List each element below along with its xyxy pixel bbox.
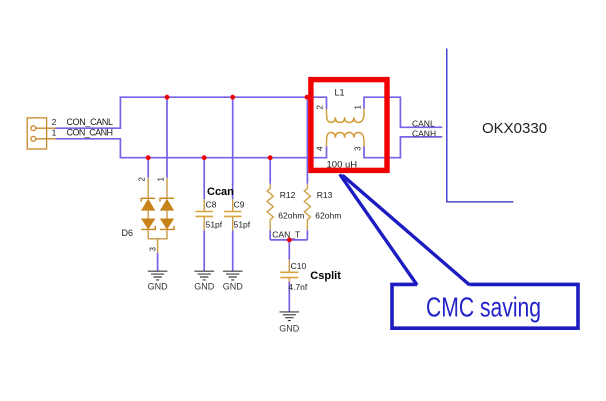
svg-text:CMC saving: CMC saving — [426, 292, 541, 323]
wire D6 pin3 to GND — [157, 253, 159, 271]
svg-text:3: 3 — [354, 146, 363, 151]
D6 lead pin1 — [166, 178, 168, 199]
wire R13 branch — [306, 97, 308, 240]
wire C8 branch — [203, 158, 205, 272]
D6 right top diode triangle — [160, 199, 173, 210]
svg-text:OKX0330: OKX0330 — [482, 120, 547, 137]
svg-text:R13: R13 — [317, 190, 333, 200]
svg-text:L1: L1 — [335, 88, 345, 98]
junction dot bottom rail R12 — [268, 155, 273, 160]
D6 left mid lead — [147, 210, 149, 219]
svg-text:D6: D6 — [122, 228, 134, 238]
svg-text:62ohm: 62ohm — [315, 211, 341, 221]
ground GND under C8 — [194, 271, 214, 280]
D6 lead pin2 — [147, 178, 149, 199]
svg-text:CANL: CANL — [412, 119, 435, 129]
wire L1 pin3 to CANH out — [364, 137, 442, 158]
wire L1 pin1 to CANL out — [364, 97, 442, 127]
svg-text:1: 1 — [156, 177, 165, 182]
D6 right top zener bar — [160, 198, 174, 202]
svg-text:C10: C10 — [291, 261, 307, 271]
junction dot top rail D6 — [165, 95, 170, 100]
wire CANL: connector to top rail to L1 pin2 — [56, 97, 327, 128]
junction dot top rail R13 — [305, 95, 310, 100]
svg-text:C9: C9 — [234, 200, 245, 210]
inductor L1 common mode choke top winding — [327, 109, 365, 123]
D6 right bottom zener bar — [160, 226, 174, 230]
junction dot CAN_T — [287, 238, 292, 243]
wire C10 branch — [288, 240, 290, 312]
svg-text:Ccan: Ccan — [207, 186, 234, 198]
svg-text:2: 2 — [315, 105, 324, 110]
wire R12 branch — [269, 158, 271, 240]
diode D6 — [141, 178, 174, 253]
svg-text:2: 2 — [52, 117, 57, 127]
svg-text:CAN_T: CAN_T — [272, 230, 300, 240]
ground GND under D6 — [148, 271, 168, 280]
red highlight box around L1 — [311, 80, 387, 171]
capacitor C9 — [224, 199, 242, 230]
inductor L1 bottom winding — [327, 133, 365, 147]
svg-text:GND: GND — [279, 323, 300, 333]
D6 left top zener bar — [141, 198, 155, 202]
wire C9 branch — [232, 97, 234, 271]
svg-text:2: 2 — [138, 177, 147, 182]
svg-text:CANH: CANH — [412, 128, 436, 138]
D6 bottom join — [148, 229, 167, 252]
junction dot bottom rail D6 — [146, 155, 151, 160]
svg-text:GND: GND — [223, 282, 244, 292]
callout box CMC saving — [392, 284, 578, 328]
svg-text:3: 3 — [148, 247, 157, 252]
svg-text:GND: GND — [148, 282, 169, 292]
connector J CON — [27, 118, 55, 149]
D6 left top diode triangle — [142, 199, 155, 210]
wire D6 pin1 branch — [166, 97, 168, 178]
junction dot top rail C9 — [230, 95, 235, 100]
D6 left bottom zener bar — [141, 226, 155, 230]
svg-text:CON_CANL: CON_CANL — [67, 117, 114, 127]
D6 right bottom diode triangle — [160, 219, 173, 229]
svg-text:GND: GND — [194, 282, 215, 292]
svg-text:4.7nf: 4.7nf — [288, 282, 308, 292]
ground GND under C10 — [280, 312, 300, 321]
callout pointer left leg — [340, 174, 417, 285]
wire CANH: connector to bottom rail to L1 pin4 — [56, 139, 327, 158]
junction dot bottom rail C8 — [202, 155, 207, 160]
ground GND under C9 — [223, 271, 243, 280]
svg-text:1: 1 — [52, 128, 57, 138]
svg-text:1: 1 — [353, 105, 362, 110]
svg-text:51pf: 51pf — [234, 220, 251, 230]
svg-text:4: 4 — [316, 146, 325, 151]
svg-text:Csplit: Csplit — [310, 270, 341, 282]
svg-text:62ohm: 62ohm — [278, 211, 304, 221]
wire CAN_T junction horizontal — [270, 239, 307, 241]
svg-text:51pf: 51pf — [206, 220, 223, 230]
capacitor C8 — [195, 199, 213, 230]
resistor R13 — [304, 184, 310, 230]
callout pointer right leg — [342, 175, 469, 285]
wire D6 pin2 branch — [147, 158, 149, 178]
svg-text:R12: R12 — [280, 190, 296, 200]
capacitor C10 — [280, 260, 298, 282]
D6 right mid lead — [166, 210, 168, 219]
OKX0330 transceiver box edge — [447, 49, 514, 202]
svg-text:C8: C8 — [206, 200, 217, 210]
D6 left bottom diode triangle — [142, 219, 155, 229]
resistor R12 — [267, 184, 273, 230]
svg-text:CON_CANH: CON_CANH — [67, 128, 114, 138]
